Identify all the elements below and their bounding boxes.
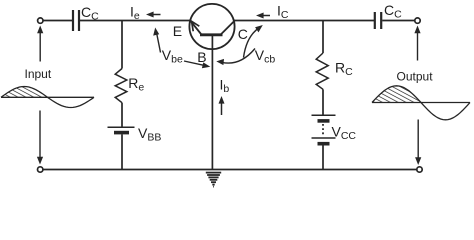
svg-text:Output: Output: [397, 70, 434, 84]
voltage arrow Vbe to emitter: [153, 28, 160, 53]
wire VBB to bottom rail: [121, 134, 123, 169]
transistor emitter diagonal with open arrowhead: [190, 21, 201, 34]
arrow input down (to bottom-left terminal): [37, 111, 43, 165]
wire VCC to bottom rail: [322, 146, 324, 170]
wire RC branch down: [322, 21, 324, 54]
transistor Q1 circle: [189, 4, 234, 49]
wire collector to RC junction to capacitor: [234, 20, 374, 22]
bottom-right terminal: [417, 167, 422, 172]
capacitor CC right: [375, 12, 381, 29]
voltage arrow Vcb to base (curved): [216, 49, 255, 66]
current arrow Ie: [146, 12, 161, 18]
battery VCC cell 2: [312, 137, 336, 139]
resistor RC: [316, 53, 328, 89]
battery VBB: [108, 126, 135, 128]
svg-text:E: E: [173, 23, 182, 39]
bottom-left terminal: [38, 167, 43, 172]
wire capacitor to transistor emitter: [80, 20, 190, 22]
current arrow IC: [256, 13, 270, 19]
battery VCC cell 1: [312, 114, 336, 116]
output terminal top-right: [415, 18, 420, 23]
resistor Re: [115, 69, 127, 103]
svg-text:B: B: [197, 49, 206, 65]
arrow output up (below top-right terminal): [414, 26, 420, 61]
wire top-left terminal to capacitor: [43, 20, 72, 22]
battery VCC dotted middle: [322, 124, 324, 136]
capacitor CC left: [73, 10, 79, 31]
transistor collector diagonal: [221, 21, 235, 35]
voltage arrow Vbe to base: [184, 61, 210, 68]
arrow input up (below top-left terminal): [37, 26, 43, 62]
svg-text:Input: Input: [25, 67, 52, 81]
input terminal top-left: [38, 18, 43, 23]
wire Re to VBB: [121, 103, 123, 127]
bottom rail wire: [43, 169, 417, 171]
base wire down to bottom rail: [211, 35, 213, 170]
current arrow Ib: [219, 96, 225, 115]
transistor base bar: [200, 33, 223, 36]
wire Re branch down: [121, 21, 123, 69]
wire capacitor to output terminal: [382, 20, 415, 22]
voltage arrow Vcb to collector (curved): [244, 25, 263, 58]
arrow output down (to bottom-right terminal): [415, 120, 421, 166]
input sine wave: [1, 87, 94, 108]
ground symbol: [206, 173, 221, 187]
wire RC to VCC: [322, 89, 324, 114]
output sine wave: [372, 86, 470, 120]
svg-text:C: C: [238, 26, 248, 42]
